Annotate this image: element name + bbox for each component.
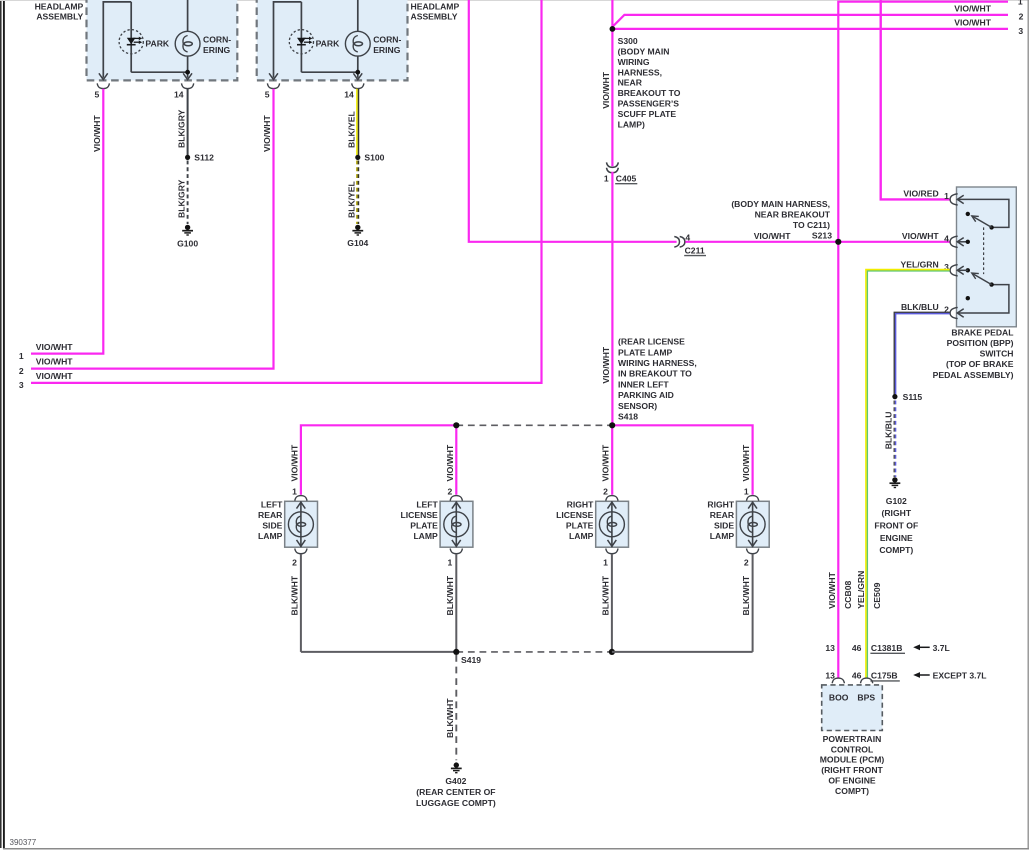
ground bus junction dot right [609, 649, 615, 655]
svg-text:HARNESS,: HARNESS, [618, 67, 662, 77]
splice S100 [355, 153, 384, 163]
svg-text:SWITCH: SWITCH [980, 349, 1014, 359]
wire BLK/GRY left headlamp pin14 to S112 [176, 89, 187, 156]
svg-text:MODULE (PCM): MODULE (PCM) [820, 755, 885, 765]
svg-text:REAR: REAR [710, 510, 735, 520]
label HEADLAMP ASSEMBLY (right unit) [411, 2, 460, 22]
svg-text:(TOP OF BRAKE: (TOP OF BRAKE [946, 359, 1014, 369]
svg-text:S300: S300 [618, 36, 638, 46]
svg-text:VIO/WHT: VIO/WHT [601, 444, 611, 482]
connector pin 1 top of lamp [741, 444, 759, 501]
svg-text:S112: S112 [194, 153, 214, 163]
wire VIO/RED from top to BPP pin 1 [881, 0, 950, 199]
svg-text:VIO/RED: VIO/RED [903, 188, 938, 198]
ground G402 [416, 762, 496, 808]
wire VIO/WHT vertical feed to C211 run [469, 0, 677, 242]
svg-text:VIO/WHT: VIO/WHT [902, 231, 940, 241]
wire VIO/WHT left headlamp pin5 to edge connector 1 [31, 89, 103, 354]
svg-text:COMPT): COMPT) [879, 545, 913, 555]
svg-text:S418: S418 [618, 412, 638, 422]
svg-text:2: 2 [448, 486, 453, 496]
svg-text:3: 3 [1018, 26, 1023, 36]
brake pedal position switch box [957, 187, 1017, 327]
top right edge labels [954, 0, 1023, 36]
svg-text:BLK/WHT: BLK/WHT [445, 575, 455, 615]
svg-text:ERING: ERING [373, 45, 401, 55]
svg-text:CONTROL: CONTROL [831, 744, 874, 754]
svg-text:RIGHT: RIGHT [707, 499, 734, 509]
svg-text:VIO/WHT: VIO/WHT [601, 346, 611, 384]
svg-text:PARK: PARK [145, 38, 170, 48]
svg-text:LICENSE: LICENSE [556, 510, 594, 520]
splice S300 [610, 26, 616, 32]
svg-text:OF ENGINE: OF ENGINE [828, 776, 876, 786]
svg-text:CCB08: CCB08 [843, 581, 853, 609]
svg-text:(REAR LICENSE: (REAR LICENSE [618, 337, 685, 347]
svg-text:G100: G100 [177, 238, 198, 248]
wire VIO/WHT C211 to S213 to BPP pin 4 [685, 231, 949, 242]
wire VIO/WHT S418 to right rear side lamp [612, 425, 752, 495]
inline connector C211 [674, 232, 706, 255]
BPP switch 2 internal circuit [957, 268, 1009, 313]
svg-text:LAMP: LAMP [258, 531, 283, 541]
lamp RIGHT name label [707, 499, 735, 540]
edge connector 1 label [19, 342, 73, 361]
svg-text:46: 46 [852, 643, 862, 653]
svg-text:BLK/WHT: BLK/WHT [741, 575, 751, 615]
svg-text:LAMP: LAMP [569, 531, 594, 541]
svg-text:LEFT: LEFT [261, 499, 283, 509]
svg-text:VIO/WHT: VIO/WHT [754, 231, 792, 241]
wire VIO/WHT junction to left license lamp [455, 425, 457, 495]
svg-text:BPS: BPS [857, 692, 875, 702]
svg-text:1: 1 [1018, 0, 1023, 7]
ground bus dashed segment [456, 651, 612, 653]
svg-text:BLK/GRY: BLK/GRY [176, 179, 186, 218]
splice S115 [892, 392, 922, 402]
svg-text:VIO/WHT: VIO/WHT [954, 4, 992, 14]
svg-text:C175B: C175B [871, 670, 898, 680]
svg-text:2: 2 [744, 558, 749, 568]
wire VIO/WHT C405 to S418 [611, 172, 613, 425]
connector pin 2 top of lamp [445, 444, 463, 501]
connector row C175B (except 3.7L) [825, 670, 986, 681]
svg-text:S115: S115 [903, 392, 923, 402]
connector pin 14 [344, 83, 364, 99]
svg-text:BREAKOUT TO: BREAKOUT TO [618, 88, 681, 98]
svg-text:SIDE: SIDE [262, 520, 282, 530]
svg-text:G402: G402 [445, 776, 466, 786]
svg-text:3: 3 [19, 380, 24, 390]
svg-text:BLK/YEL: BLK/YEL [347, 181, 357, 218]
inline connector C405 [604, 162, 637, 183]
svg-text:5: 5 [265, 90, 270, 100]
svg-text:2: 2 [19, 366, 24, 376]
svg-text:LICENSE: LICENSE [401, 510, 439, 520]
PCM connector arc pin 13 [832, 678, 844, 683]
svg-text:SCUFF PLATE: SCUFF PLATE [618, 109, 677, 119]
splice S112 [185, 153, 214, 163]
svg-text:VIO/WHT: VIO/WHT [36, 357, 74, 367]
svg-text:NEAR BREAKOUT: NEAR BREAKOUT [755, 209, 831, 219]
ground bus left segment [301, 651, 456, 653]
lamp RIGHT name label [556, 499, 594, 540]
svg-text:RIGHT: RIGHT [567, 499, 594, 509]
svg-text:PLATE LAMP: PLATE LAMP [618, 347, 673, 357]
wire BLK/WHT lamp to ground bus [455, 554, 457, 652]
lamp LEFT REAR [285, 501, 318, 547]
connector pin 14 [174, 83, 194, 99]
svg-text:14: 14 [344, 90, 354, 100]
wire internal park feed [99, 2, 131, 80]
wire VIO/WHT S300 to edge connector 3 (top right) [612, 28, 1008, 30]
ground G100 [177, 225, 198, 249]
connector pin 1 top of lamp [290, 444, 308, 501]
svg-text:BLK/GRY: BLK/GRY [176, 109, 186, 148]
wire VIO/WHT S418 to right license lamp [611, 425, 613, 495]
svg-text:LEFT: LEFT [416, 499, 438, 509]
svg-text:VIO/WHT: VIO/WHT [290, 444, 300, 482]
wire BLK/GRY S112 to G100 [176, 161, 187, 225]
svg-text:ENGINE: ENGINE [880, 533, 913, 543]
BPP switch label [933, 327, 1014, 379]
connector pin 2 bottom of lamp [290, 549, 308, 616]
svg-text:S419: S419 [461, 655, 481, 665]
BPP pin 3 connector [900, 259, 963, 276]
connector pin 2 top of lamp [601, 444, 619, 501]
svg-text:1: 1 [744, 486, 749, 496]
ground G102 [874, 477, 918, 555]
connector pin 5 [265, 83, 280, 99]
splice S419 [453, 649, 481, 665]
svg-text:HEADLAMP: HEADLAMP [35, 2, 84, 12]
lamp LEFT name label [258, 499, 283, 540]
svg-text:S213: S213 [812, 230, 832, 240]
wire BLK/WHT lamp to ground bus [611, 554, 613, 652]
splice S213 junction dot [835, 239, 841, 245]
wire VIO/WHT left rear side lamp to junction [301, 425, 456, 495]
svg-text:SENSOR): SENSOR) [618, 401, 657, 411]
svg-text:EXCEPT 3.7L: EXCEPT 3.7L [933, 670, 987, 680]
svg-text:1: 1 [604, 173, 609, 183]
PCM label [820, 734, 885, 796]
svg-text:POSITION (BPP): POSITION (BPP) [947, 338, 1014, 348]
svg-text:PARK: PARK [316, 38, 341, 48]
headlamp assembly box [87, 0, 238, 80]
wire YEL/GRN BPP pin 3 to PCM [856, 270, 950, 678]
svg-text:LAMP): LAMP) [618, 120, 645, 130]
wire BLK/YEL S100 to G104 [347, 161, 359, 225]
svg-text:IN BREAKOUT TO: IN BREAKOUT TO [618, 369, 692, 379]
svg-text:4: 4 [944, 233, 949, 243]
lamp LEFT LICENSE [440, 501, 473, 547]
svg-text:1: 1 [448, 558, 453, 568]
connector pin 1 bottom of lamp [601, 549, 619, 616]
headlamp assembly box [257, 0, 408, 80]
svg-text:NEAR: NEAR [618, 78, 643, 88]
BPP switch 1 internal circuit [957, 199, 1009, 229]
svg-text:LAMP: LAMP [710, 531, 735, 541]
svg-text:REAR: REAR [258, 510, 283, 520]
svg-text:CE509: CE509 [872, 582, 882, 608]
svg-text:2: 2 [292, 558, 297, 568]
svg-text:SIDE: SIDE [714, 520, 734, 530]
svg-text:CORN-: CORN- [203, 35, 231, 45]
svg-text:LUGGAGE COMPT): LUGGAGE COMPT) [416, 798, 496, 808]
S418 description text [601, 337, 697, 422]
svg-text:VIO/WHT: VIO/WHT [741, 444, 751, 482]
BPP pin 4 contact [957, 240, 970, 244]
svg-text:1: 1 [19, 351, 24, 361]
LED park lamp [289, 2, 340, 72]
svg-text:WIRING: WIRING [618, 57, 650, 67]
svg-text:PASSENGER’S: PASSENGER’S [618, 99, 680, 109]
bulb cornering lamp [131, 0, 231, 78]
svg-text:BLK/YEL: BLK/YEL [347, 111, 357, 148]
bulb cornering lamp [301, 0, 401, 78]
svg-text:VIO/WHT: VIO/WHT [262, 114, 272, 152]
powertrain control module box [822, 685, 883, 731]
connector pin 2 bottom of lamp [741, 549, 759, 616]
svg-text:2: 2 [603, 486, 608, 496]
svg-text:G104: G104 [347, 238, 368, 248]
wire VIO/WHT S300 to edge connector 2 (top right) [612, 15, 1008, 27]
PCM connector arc pin 46 [861, 678, 873, 683]
svg-text:46: 46 [852, 670, 862, 680]
junction dot cornering/park common [353, 70, 362, 80]
svg-text:BLK/BLU: BLK/BLU [883, 412, 893, 450]
S213 description text [731, 199, 832, 241]
svg-text:13: 13 [825, 643, 835, 653]
svg-text:5: 5 [95, 90, 100, 100]
svg-text:VIO/WHT: VIO/WHT [954, 18, 992, 28]
svg-text:CORN-: CORN- [373, 35, 401, 45]
BPP pin 1 connector [903, 188, 963, 205]
wire BLK/WHT S419 to G402 [445, 655, 456, 760]
svg-text:VIO/WHT: VIO/WHT [36, 342, 74, 352]
svg-text:(BODY MAIN: (BODY MAIN [618, 46, 670, 56]
svg-text:VIO/WHT: VIO/WHT [92, 114, 102, 152]
wire BLK/YEL right headlamp pin14 to S100 [347, 89, 359, 156]
svg-text:YEL/GRN: YEL/GRN [856, 571, 866, 609]
svg-text:PARKING AID: PARKING AID [618, 390, 674, 400]
svg-text:C1381B: C1381B [871, 643, 903, 653]
wire labels VIO/WHT CCB08 at PCM [827, 571, 853, 609]
svg-text:C405: C405 [616, 173, 637, 183]
svg-text:VIO/WHT: VIO/WHT [827, 571, 837, 609]
svg-text:ASSEMBLY: ASSEMBLY [411, 11, 458, 21]
svg-text:S100: S100 [364, 153, 384, 163]
svg-text:HEADLAMP: HEADLAMP [411, 2, 460, 12]
wire BLK/BLU S115 to G102 [883, 401, 895, 478]
edge connector 2 label [19, 357, 73, 377]
wire BLK/BLU BPP pin 2 to S115 [894, 312, 949, 394]
edge connector 3 label [19, 371, 73, 390]
svg-text:VIO/WHT: VIO/WHT [445, 444, 455, 482]
svg-text:INNER LEFT: INNER LEFT [618, 379, 669, 389]
svg-text:(REAR CENTER OF: (REAR CENTER OF [416, 787, 495, 797]
svg-text:1: 1 [603, 558, 608, 568]
svg-text:VIO/WHT: VIO/WHT [36, 371, 74, 381]
svg-text:WIRING HARNESS,: WIRING HARNESS, [618, 358, 697, 368]
connector pin 1 bottom of lamp [445, 549, 463, 616]
lamp RIGHT REAR [736, 501, 769, 547]
junction dot cornering/park common [183, 70, 192, 80]
svg-text:2: 2 [1019, 11, 1024, 21]
BPP pin 2 connector [901, 302, 964, 319]
svg-text:(BODY MAIN HARNESS,: (BODY MAIN HARNESS, [731, 199, 830, 209]
svg-text:390377: 390377 [10, 838, 37, 847]
BPP pin 4 connector [902, 231, 964, 248]
wire BLK/WHT lamp to ground bus [300, 554, 302, 652]
svg-text:BOO: BOO [829, 692, 849, 702]
junction dot left license feed [453, 422, 459, 428]
BPP mechanical link (dashed) [983, 227, 985, 274]
svg-text:POWERTRAIN: POWERTRAIN [823, 734, 882, 744]
svg-text:BLK/WHT: BLK/WHT [601, 575, 611, 615]
ground bus right segment [612, 651, 753, 653]
svg-text:14: 14 [174, 90, 184, 100]
svg-text:(RIGHT: (RIGHT [881, 508, 911, 518]
svg-text:PLATE: PLATE [410, 520, 438, 530]
svg-text:BRAKE PEDAL: BRAKE PEDAL [951, 327, 1013, 337]
svg-text:YEL/GRN: YEL/GRN [900, 259, 938, 269]
svg-text:LAMP: LAMP [413, 531, 438, 541]
svg-text:G102: G102 [886, 496, 907, 506]
svg-text:3.7L: 3.7L [933, 643, 950, 653]
svg-text:BLK/WHT: BLK/WHT [290, 575, 300, 615]
lamp LEFT name label [401, 499, 439, 540]
svg-text:PLATE: PLATE [566, 520, 594, 530]
svg-text:PEDAL ASSEMBLY): PEDAL ASSEMBLY) [933, 370, 1014, 380]
LED park lamp [119, 2, 170, 72]
svg-text:VIO/WHT: VIO/WHT [601, 71, 611, 109]
svg-text:(RIGHT FRONT: (RIGHT FRONT [821, 765, 883, 775]
lamp RIGHT LICENSE [596, 501, 629, 547]
label HEADLAMP ASSEMBLY (left unit) [35, 2, 84, 22]
ground G104 [347, 225, 368, 249]
svg-text:C211: C211 [685, 246, 705, 256]
S300 description text [618, 36, 681, 130]
svg-text:BLK/WHT: BLK/WHT [445, 698, 455, 738]
svg-text:ASSEMBLY: ASSEMBLY [36, 11, 83, 21]
connector pin 5 [95, 83, 110, 99]
svg-text:ERING: ERING [203, 45, 231, 55]
svg-text:1: 1 [944, 191, 949, 201]
wire internal park feed [269, 2, 301, 80]
wire VIO/WHT right headlamp pin5 to edge connector 2 [31, 89, 274, 369]
wire VIO/WHT edge connector 3 feed [31, 0, 542, 383]
svg-text:FRONT OF: FRONT OF [874, 521, 918, 531]
splice S418 junction dot [609, 422, 615, 428]
svg-text:COMPT): COMPT) [835, 786, 869, 796]
svg-text:TO C211): TO C211) [793, 220, 830, 230]
connector row C1381B (3.7L) [825, 643, 949, 654]
wire BLK/WHT lamp to ground bus [752, 554, 754, 652]
svg-text:BLK/BLU: BLK/BLU [901, 302, 939, 312]
wire VIO/WHT edge connector 1 down through S213 to PCM [838, 2, 1008, 678]
wire VIO/WHT from top to S300/C405 [601, 0, 613, 166]
svg-text:1: 1 [292, 486, 297, 496]
wire dashed S418 to left license lamp junction [456, 424, 612, 426]
